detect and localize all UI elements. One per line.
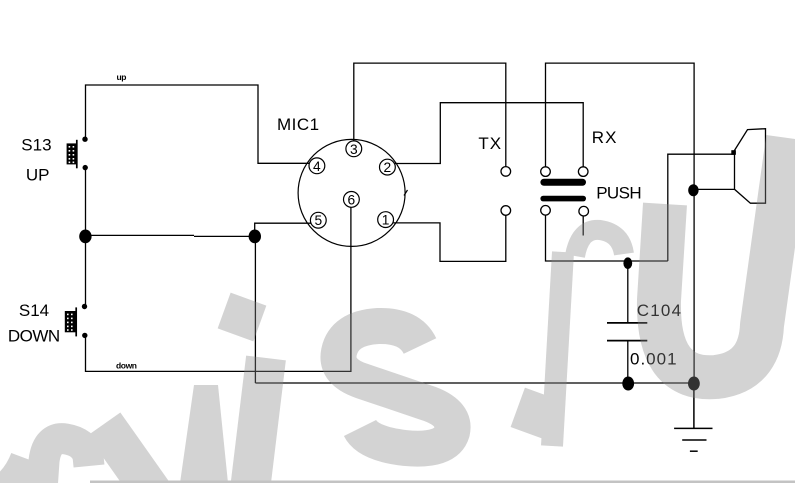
watermark letter s (338, 326, 452, 449)
speaker LS1 (731, 129, 765, 204)
TX switch lower contact (501, 206, 511, 216)
MIC1 pin 2 (380, 159, 396, 175)
wire PUSH lower left contact to bottom horizontal (546, 215, 668, 261)
MIC1 pin 3 (346, 141, 362, 157)
wire S13 bottom to node A (85, 168, 87, 236)
node B junction (249, 230, 261, 244)
node A junction (79, 230, 91, 244)
wire MIC1 pin 3 to TX upper contact (354, 63, 506, 167)
ground (674, 383, 712, 451)
wire PUSH upper left contact to top rail and right riser (546, 63, 695, 383)
svg-text:S14: S14 (19, 301, 49, 320)
wire TX lower contact to MIC1 pin 1 (393, 215, 506, 261)
wire bottom bus (255, 382, 694, 384)
svg-text:RX: RX (592, 128, 618, 147)
PUSH switch bar top (540, 179, 586, 186)
junction C104 top (623, 257, 632, 269)
PUSH switch lower right contact (579, 206, 589, 216)
svg-text:up: up (117, 72, 127, 82)
wire capacitor C104 bottom lead (627, 341, 629, 383)
wire node B to MIC1 pin 5 (255, 223, 311, 236)
svg-text:DOWN: DOWN (8, 326, 60, 345)
junction bus ground (688, 377, 700, 391)
wire node A to node B (86, 235, 255, 236)
svg-text:S13: S13 (21, 136, 51, 155)
wire right riser to speaker top (668, 154, 735, 261)
MIC1 pin 6 (344, 192, 360, 208)
MIC1 pin 1 (378, 212, 394, 228)
svg-text:1: 1 (382, 213, 390, 228)
PUSH switch lower left contact (541, 206, 551, 216)
capacitor C104 plates (607, 323, 647, 341)
svg-text:4: 4 (313, 159, 321, 174)
PUSH switch upper right contact (578, 167, 588, 177)
svg-text:down: down (116, 360, 137, 370)
svg-text:2: 2 (384, 160, 392, 175)
svg-text:MIC1: MIC1 (277, 115, 320, 134)
switch S14 (65, 304, 88, 338)
MIC1 pin 5 (310, 212, 326, 228)
watermark letter e fragment (0, 460, 30, 483)
watermark servis.ru (0, 138, 788, 483)
wire speaker bottom (694, 188, 734, 190)
wire capacitor C104 top lead (627, 262, 629, 323)
MIC1 pin 4 (309, 158, 325, 174)
wire PUSH lower right stub (582, 216, 584, 236)
watermark letter r second arch (575, 230, 624, 256)
junction bus C104 (622, 377, 634, 391)
watermark letter r second (552, 252, 563, 446)
svg-text:UP: UP (26, 166, 50, 185)
PUSH switch bar bottom (540, 196, 586, 202)
watermark letter r (40, 439, 89, 483)
connector MIC1 body (298, 139, 405, 246)
watermark letter i dot (218, 293, 267, 342)
svg-text:6: 6 (348, 192, 356, 207)
switch S13 (67, 137, 88, 171)
wire node A down to S14 (85, 236, 87, 306)
PUSH switch upper left contact (541, 167, 551, 177)
wire MIC1 pin 2 to PUSH upper right contact (395, 103, 583, 167)
watermark letter u (659, 138, 788, 377)
svg-text:PUSH: PUSH (596, 183, 641, 202)
MIC1 key notch (404, 190, 408, 196)
watermark period (511, 388, 565, 442)
wire node B down to bottom bus (254, 236, 256, 383)
junction speaker bottom (688, 184, 698, 196)
wire S13 top to MIC1 pin 4 (86, 85, 311, 163)
wire S14 bottom along down label to MIC1 pin 6 (86, 207, 351, 371)
svg-text:3: 3 (350, 142, 358, 157)
watermark letter i stem (250, 358, 266, 483)
svg-text:5: 5 (314, 213, 322, 228)
svg-text:TX: TX (478, 134, 502, 153)
watermark letter v right stroke (180, 385, 228, 483)
TX switch upper contact (501, 167, 511, 177)
watermark letter v left stroke (104, 424, 152, 483)
watermark bottom border line (90, 481, 795, 483)
